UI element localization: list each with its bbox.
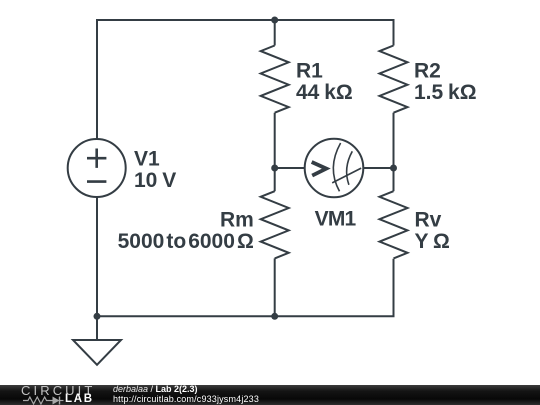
label Rv value <box>415 208 450 253</box>
wire left vertical lower <box>96 197 98 317</box>
svg-text:1.5 kΩ: 1.5 kΩ <box>414 81 477 104</box>
voltmeter VM1 <box>305 139 364 198</box>
node junction bottom left <box>94 313 101 320</box>
ground <box>73 316 121 365</box>
resistor Rm <box>261 191 289 258</box>
footer bar <box>0 385 540 405</box>
wire middle branch upper <box>274 20 276 46</box>
CircuitLab logo wordmark CIRCUIT <box>21 386 96 396</box>
label R1 value <box>296 60 353 105</box>
node junction top middle <box>271 17 278 24</box>
svg-text:44 kΩ: 44 kΩ <box>296 81 353 104</box>
label R2 value <box>414 60 477 105</box>
label V1 value <box>134 148 176 193</box>
wire top horizontal <box>97 20 394 140</box>
CircuitLab logo wordmark LAB <box>65 394 94 404</box>
resistor R1 <box>261 46 289 113</box>
label Rm value <box>118 208 254 253</box>
node junction mid right <box>390 165 397 172</box>
wire right between R2 and node <box>393 113 395 192</box>
node junction mid left <box>271 165 278 172</box>
label VM1 <box>315 208 357 231</box>
svg-text:10 V: 10 V <box>134 169 176 192</box>
wire middle between R1 and node <box>274 113 276 192</box>
svg-text:Rv: Rv <box>415 208 442 231</box>
wire voltmeter left lead <box>275 167 305 169</box>
svg-text:Rm: Rm <box>220 208 254 231</box>
svg-text:R2: R2 <box>414 60 441 83</box>
wire voltmeter right lead <box>363 167 394 169</box>
svg-text:VM1: VM1 <box>315 208 357 231</box>
svg-text:R1: R1 <box>296 60 323 83</box>
CircuitLab logo schematic squiggle <box>23 395 67 405</box>
footer title line <box>113 385 259 405</box>
svg-text:5000 to 6000 Ω: 5000 to 6000 Ω <box>118 230 254 253</box>
node junction bottom middle <box>271 313 278 320</box>
wire middle between Rm and bottom <box>274 258 276 316</box>
resistor R2 <box>380 46 408 113</box>
voltage source V1 <box>68 139 126 197</box>
svg-text:Y Ω: Y Ω <box>415 230 450 253</box>
wire bottom horizontal <box>97 259 394 317</box>
svg-text:V1: V1 <box>134 148 160 171</box>
resistor Rv <box>380 191 408 258</box>
